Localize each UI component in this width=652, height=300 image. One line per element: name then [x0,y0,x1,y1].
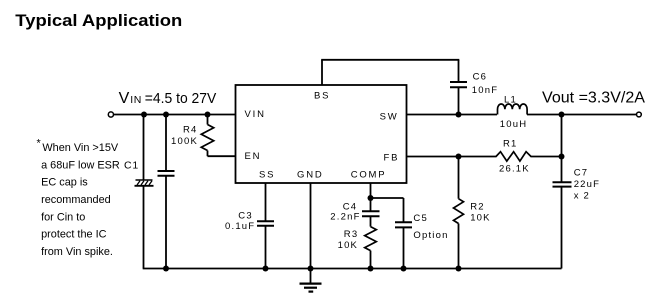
svg-text:26.1K: 26.1K [499,164,530,175]
svg-text:C5: C5 [413,213,428,224]
svg-text:10K: 10K [338,240,359,251]
svg-text:When Vin >15V: When Vin >15V [42,142,119,154]
svg-text:C1: C1 [124,160,139,172]
svg-text:COMP: COMP [351,170,387,181]
svg-text:x 2: x 2 [574,190,590,201]
svg-text:100K: 100K [171,136,198,147]
svg-text:a 68uF low ESR: a 68uF low ESR [41,159,120,171]
svg-text:FB: FB [384,152,400,163]
svg-text:C3: C3 [238,210,253,221]
svg-text:VIN: VIN [245,109,266,120]
svg-text:GND: GND [297,170,324,181]
svg-text:R3: R3 [344,229,359,240]
svg-text:22uF: 22uF [574,179,600,190]
svg-text:R1: R1 [503,138,518,149]
svg-text:*: * [37,138,42,150]
svg-text:V: V [119,90,130,107]
svg-text:SW: SW [380,112,399,123]
svg-text:10K: 10K [470,213,491,224]
svg-text:EC cap is: EC cap is [41,177,88,189]
svg-text:BS: BS [314,91,330,102]
svg-text:from Vin spike.: from Vin spike. [41,246,113,258]
svg-text:2.2nF: 2.2nF [330,212,360,223]
svg-text:SS: SS [259,170,275,181]
svg-text:Typical Application: Typical Application [15,12,182,30]
svg-text:0.1uF: 0.1uF [225,221,255,232]
svg-text:recommanded: recommanded [41,194,111,206]
svg-text:Vout =3.3V/2A: Vout =3.3V/2A [542,89,645,106]
svg-text:R4: R4 [183,125,198,136]
svg-text:=4.5 to 27V: =4.5 to 27V [145,90,217,107]
svg-text:protect the IC: protect the IC [41,229,107,241]
svg-text:C7: C7 [574,167,589,178]
svg-text:EN: EN [245,151,262,162]
svg-text:10nF: 10nF [472,85,498,96]
svg-text:R2: R2 [470,202,485,213]
svg-text:C6: C6 [473,72,488,83]
svg-text:L1: L1 [504,94,517,105]
svg-text:Option: Option [413,230,448,241]
svg-text:for Cin to: for Cin to [41,211,85,223]
svg-text:10uH: 10uH [500,119,528,130]
svg-text:IN: IN [130,94,142,106]
